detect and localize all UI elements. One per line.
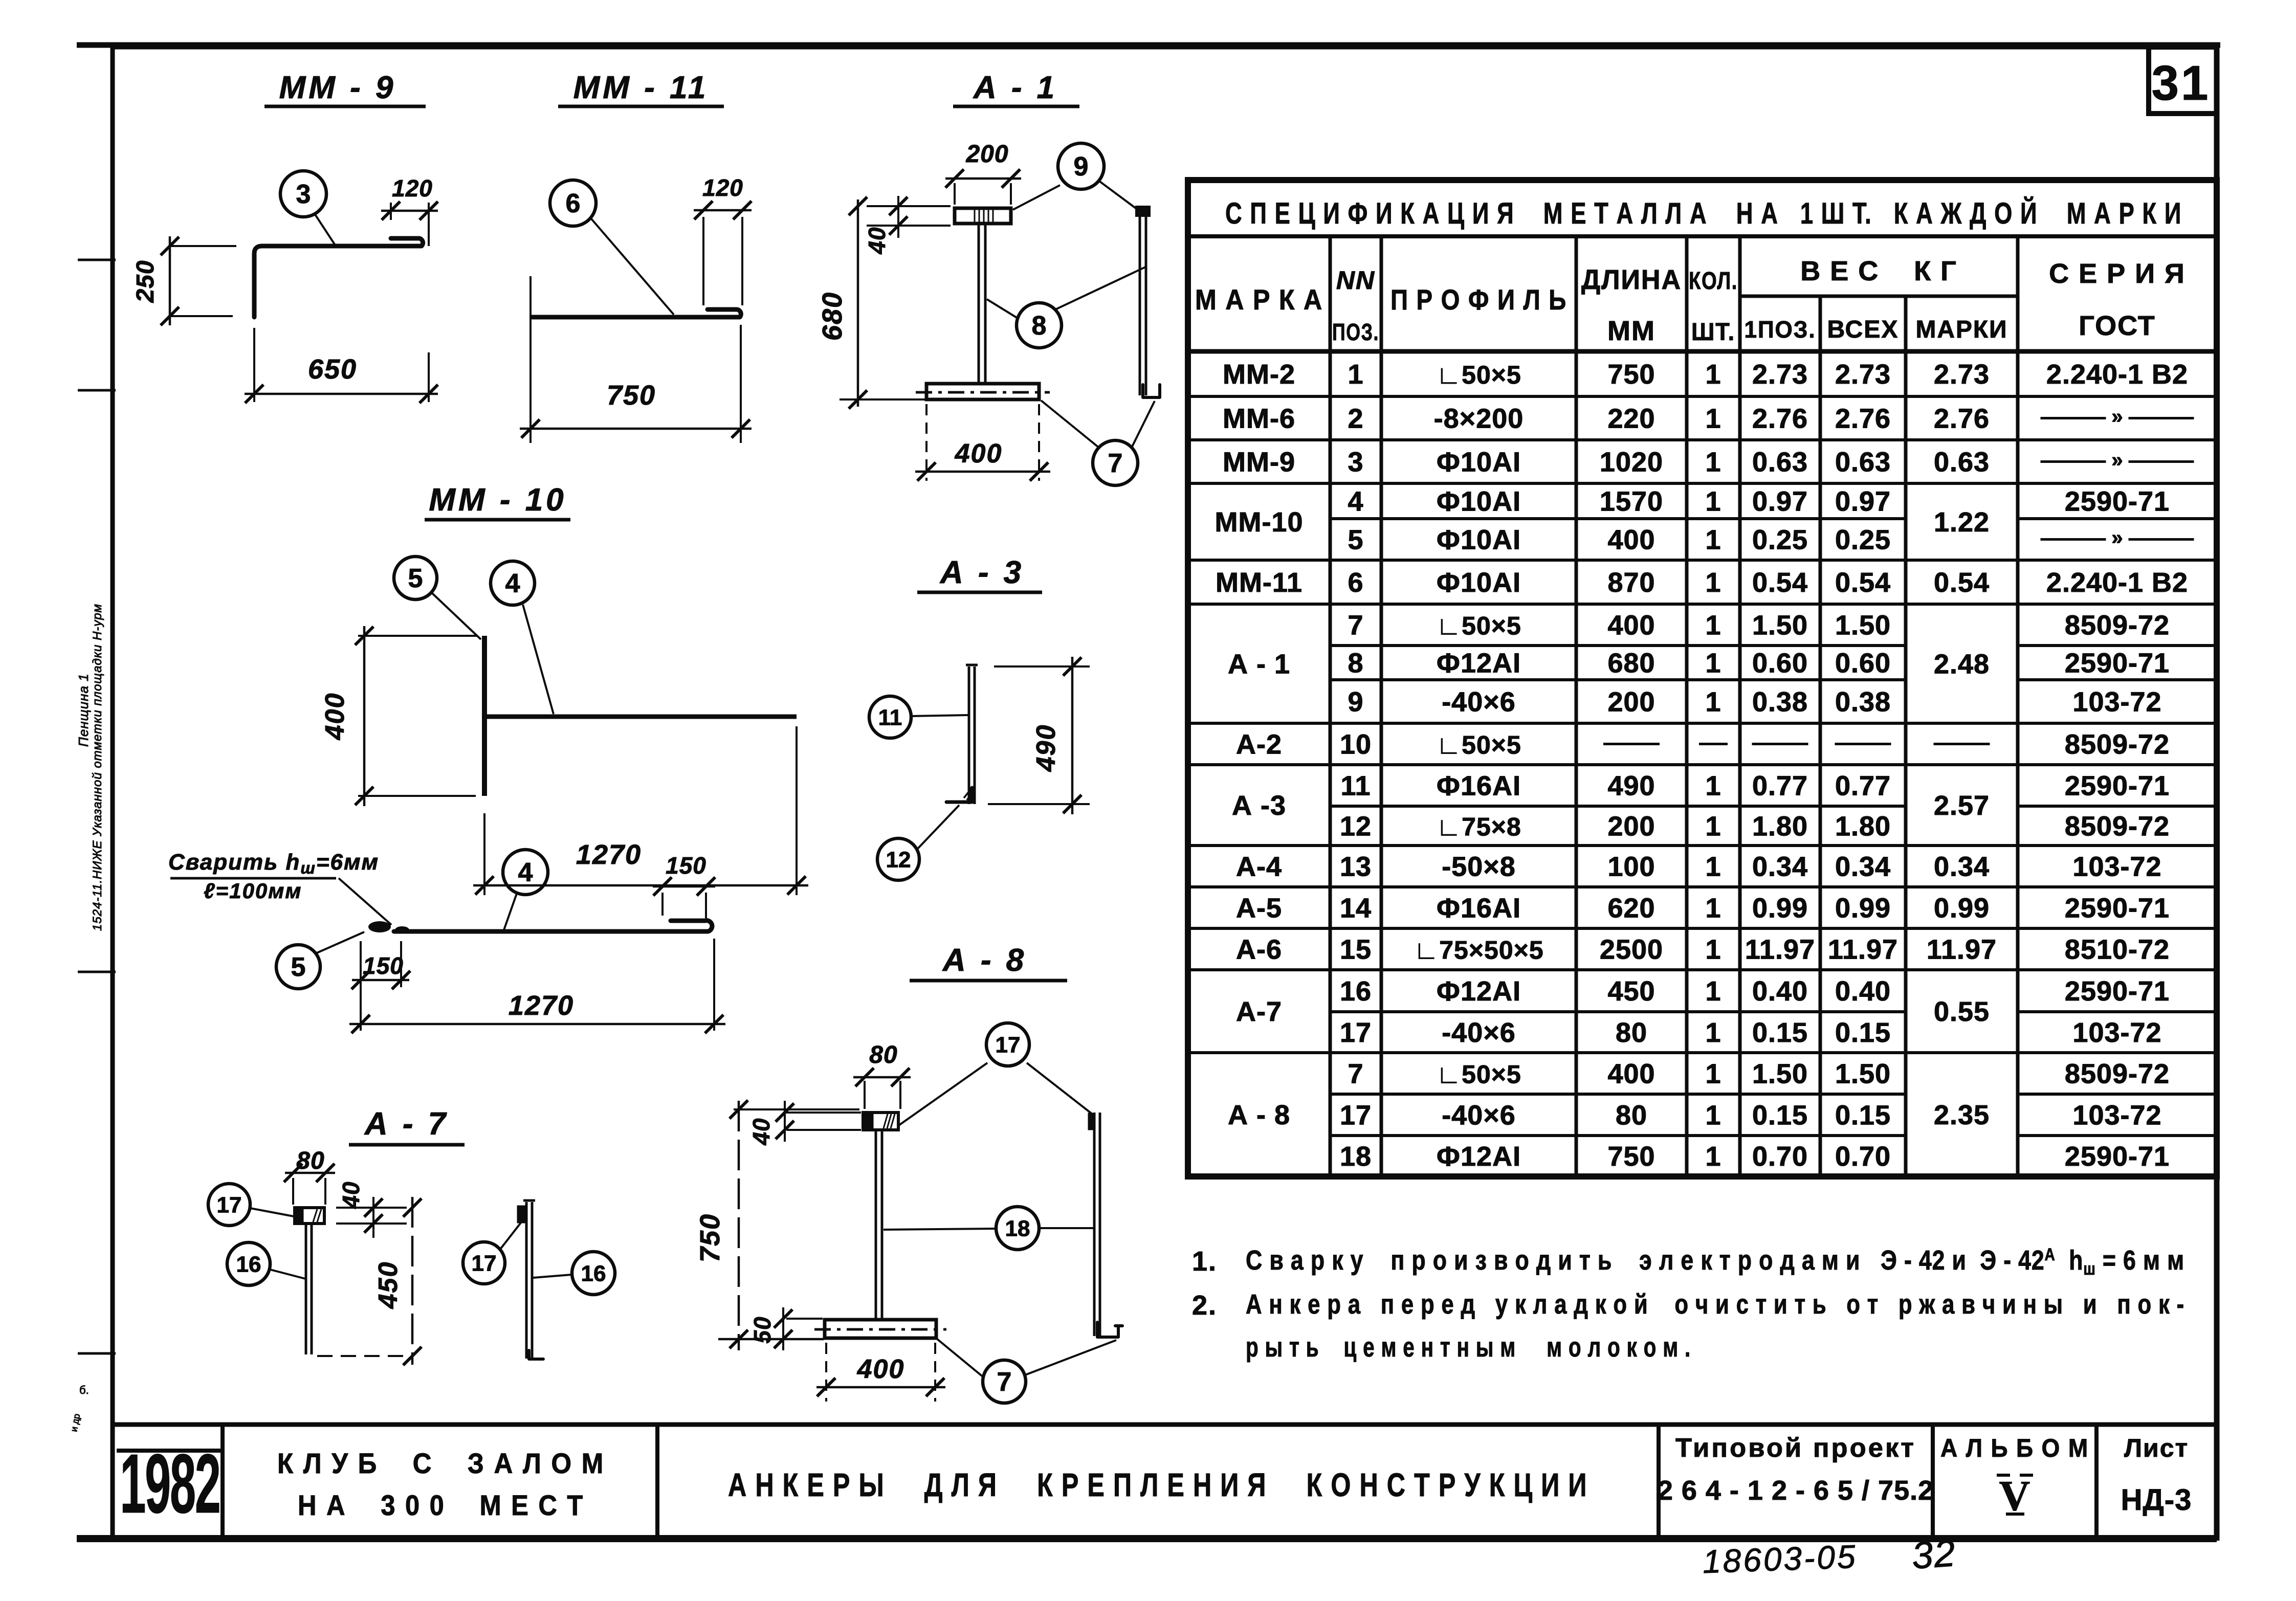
svg-text:120: 120 [702,174,743,201]
svg-text:250: 250 [132,260,159,303]
svg-text:А-2: А-2 [1236,729,1282,760]
svg-text:ШТ.: ШТ. [1691,319,1735,346]
svg-text:0.60: 0.60 [1835,648,1891,679]
svg-text:ММ-2: ММ-2 [1223,359,1295,390]
svg-text:80: 80 [869,1041,897,1069]
leader to pos.16 (A-7 left) [270,1270,305,1279]
title block divider x=1285 [655,1425,659,1541]
svg-text:2.73: 2.73 [1752,359,1808,390]
svg-text:А-6: А-6 [1236,935,1282,965]
leader to pos.16 (A-7 right) [533,1275,571,1278]
dim 200 (A-1 top plate) [954,183,956,205]
svg-text:12: 12 [1340,811,1372,842]
dim 490 (A-3 height) [994,665,1090,668]
svg-text:17: 17 [472,1251,497,1276]
svg-text:0.38: 0.38 [1835,687,1891,718]
svg-text:8509-72: 8509-72 [2065,811,2170,842]
svg-text:1570: 1570 [1600,486,1663,517]
svg-text:150: 150 [666,852,707,879]
A-8 top plate pos.17 [863,1113,898,1130]
svg-text:750: 750 [1607,1141,1655,1172]
svg-text:1: 1 [1348,359,1363,390]
svg-text:2.76: 2.76 [1934,404,1990,434]
svg-text:2.76: 2.76 [1835,404,1891,434]
svg-text:1: 1 [1705,648,1721,679]
svg-text:»: » [2111,449,2123,472]
svg-text:А - 8: А - 8 [1228,1100,1290,1130]
callout circle 6 [550,180,596,226]
svg-text:8509-72: 8509-72 [2065,610,2170,641]
svg-text:2.73: 2.73 [1934,359,1990,390]
svg-text:А - 8: А - 8 [942,943,1027,978]
svg-text:100: 100 [1607,852,1655,882]
svg-text:450: 450 [373,1261,403,1309]
svg-text:А Л Ь Б О М: А Л Ь Б О М [1940,1434,2089,1462]
svg-text:1: 1 [1705,404,1721,434]
A-3 vertical bar pos.11 [968,666,970,804]
svg-text:А-7: А-7 [1236,996,1282,1027]
svg-text:1: 1 [1705,359,1721,390]
callout circle 11 [869,696,911,738]
svg-text:2590-71: 2590-71 [2065,893,2170,924]
svg-text:1: 1 [1705,1100,1721,1131]
leader to pos.4 [523,605,554,714]
callout circle 7 (A-8) [983,1360,1026,1403]
svg-text:16: 16 [236,1252,261,1277]
svg-text:А-4: А-4 [1236,852,1282,882]
svg-text:Ф12АI: Ф12АI [1437,976,1521,1007]
svg-text:-50×8: -50×8 [1442,852,1516,882]
dim 450 (A-7 height) [411,1197,414,1365]
svg-text:1.22: 1.22 [1934,507,1990,538]
svg-text:4: 4 [505,569,520,598]
svg-text:7: 7 [1348,1059,1363,1089]
svg-text:А Н К Е Р Ы Д Л Я К Р: А Н К Е Р Ы Д Л Я К Р Е П Л Е Н И Я К О … [728,1466,1587,1503]
svg-text:∟75×8: ∟75×8 [1436,813,1521,841]
A-7 web pos.16 [305,1224,307,1354]
dim 40 (A-1 plate thickness) [867,205,951,207]
svg-text:200: 200 [965,141,1008,168]
svg-text:0.40: 0.40 [1752,976,1808,1007]
svg-text:0.34: 0.34 [1752,852,1808,882]
svg-text:0.60: 0.60 [1752,648,1808,679]
svg-text:0.15: 0.15 [1752,1100,1808,1131]
callout circle 18 [996,1207,1039,1250]
svg-text:КОЛ.: КОЛ. [1689,268,1738,295]
svg-text:2.73: 2.73 [1835,359,1891,390]
callout circle 4 (weld variant) [503,850,548,895]
svg-text:-8×200: -8×200 [1434,404,1524,434]
svg-text:NN: NN [1336,266,1375,295]
svg-text:1.80: 1.80 [1835,811,1891,842]
svg-text:0.70: 0.70 [1752,1141,1808,1172]
svg-text:ВСЕХ: ВСЕХ [1827,316,1899,343]
svg-text:40: 40 [748,1118,775,1145]
svg-text:1270: 1270 [509,990,574,1021]
dim 40 (A-8 plate thickness) [783,1111,861,1114]
svg-text:р ы т ь ц е м е н т н ы м: р ы т ь ц е м е н т н ы м м о л о к о м … [1246,1332,1691,1363]
table row lines [1188,395,1330,398]
frame fold tick marks on left border [78,259,116,261]
svg-text:ℓ=100мм: ℓ=100мм [204,879,302,903]
svg-text:-40×6: -40×6 [1442,1017,1516,1048]
svg-text:1: 1 [1705,525,1721,555]
svg-text:Сварить hш=6мм: Сварить hш=6мм [168,850,379,877]
svg-text:8509-72: 8509-72 [2065,729,2170,760]
svg-text:ГОСТ: ГОСТ [2079,310,2156,341]
title block frame [77,1535,2217,1542]
A-7 top plate pos.17 [295,1208,324,1224]
callout circle 17 [986,1023,1029,1066]
dim 750 (A-8 height) [734,1108,859,1110]
svg-text:120: 120 [392,175,433,202]
dim 680 (A-1 height) [857,199,859,407]
year stamp 1982 [117,1449,223,1453]
svg-text:1020: 1020 [1600,447,1663,478]
svg-text:ММ-10: ММ-10 [1215,507,1303,538]
leader to pos.6 [591,219,674,315]
svg-text:А - 1: А - 1 [1228,649,1290,680]
title block divider x=3778 [1931,1425,1935,1541]
svg-text:ММ-11: ММ-11 [1216,567,1302,598]
svg-text:∟50×5: ∟50×5 [1436,1060,1521,1089]
svg-text:40: 40 [338,1181,364,1209]
callout circle 9 [1058,143,1104,189]
leaders to pos.18 [884,1229,996,1230]
leader to pos.12 [917,805,959,849]
svg-text:11: 11 [878,705,902,730]
svg-text:8: 8 [1348,648,1363,679]
svg-text:400: 400 [1607,610,1655,641]
svg-text:9: 9 [1074,152,1089,182]
svg-text:680: 680 [1607,648,1655,679]
callout circle 7 [1093,440,1138,485]
svg-text:∟50×5: ∟50×5 [1436,361,1521,389]
svg-text:0.25: 0.25 [1835,525,1891,555]
svg-text:18: 18 [1005,1216,1030,1241]
svg-text:МАРКИ: МАРКИ [1916,316,2008,343]
svg-text:750: 750 [607,380,656,411]
svg-text:103-72: 103-72 [2072,1100,2161,1131]
svg-text:5: 5 [408,564,423,593]
svg-text:1270: 1270 [576,839,642,870]
svg-text:М А Р К А: М А Р К А [1195,283,1323,316]
svg-text:НД-3: НД-3 [2121,1483,2192,1517]
svg-text:200: 200 [1607,811,1655,842]
svg-text:1: 1 [1705,567,1721,598]
A-8 side bar top cap [1089,1114,1095,1129]
svg-text:А-5: А-5 [1236,893,1282,924]
svg-text:∟50×5: ∟50×5 [1436,612,1521,640]
A-1 bottom plate pos.7 [926,384,1039,399]
svg-text:150: 150 [363,952,404,979]
svg-text:1: 1 [1705,447,1721,478]
svg-text:0.55: 0.55 [1934,996,1990,1027]
A-7 side bar top hatch pos.17 [518,1206,526,1222]
MM-10w bar pos.4 [394,921,712,931]
A-1 side bar top cap [1136,207,1150,216]
svg-text:750: 750 [695,1213,725,1262]
svg-text:1.: 1. [1192,1246,1217,1277]
dim 400 (MM-10 cross bar) [358,635,477,637]
A-7 side bar bottom foot [529,1350,543,1359]
sheet number box 31 [2149,47,2217,114]
A-8 web pos.18 [875,1130,877,1319]
frame left border [111,45,115,1541]
svg-text:650: 650 [308,354,357,385]
svg-text:750: 750 [1607,359,1655,390]
detail MM-11 straight bar with hook pos.6 [532,309,741,317]
svg-text:7: 7 [997,1367,1012,1397]
leaders to pos.7 [1041,401,1099,448]
svg-text:1ПОЗ.: 1ПОЗ. [1745,316,1816,343]
svg-text:Ф16АI: Ф16АI [1437,893,1521,924]
dim 650 (MM-9 length) [253,328,255,402]
MM-10 cross bar pos.5 [482,636,487,796]
svg-text:0.77: 0.77 [1752,771,1808,802]
dim 40 (A-7 plate thickness) [336,1207,407,1209]
leader to pos.17 (A-7 right) [500,1221,522,1249]
svg-text:»: » [2111,406,2123,428]
svg-text:1: 1 [1705,893,1721,924]
svg-text:А н к е р а п е р е д у к: А н к е р а п е р е д у к л а д к о й о … [1246,1289,2184,1320]
callout circle 16 (A-7 left) [227,1242,270,1285]
table header grid [1188,234,2217,238]
svg-text:103-72: 103-72 [2072,1017,2161,1048]
svg-text:50: 50 [749,1316,776,1343]
svg-text:Н А 3 0 0 М Е С Т: Н А 3 0 0 М Е С Т [298,1489,584,1521]
title block divider x=3242 [1657,1425,1661,1541]
svg-text:1: 1 [1705,610,1721,641]
svg-text:1.50: 1.50 [1752,1059,1808,1089]
svg-text:450: 450 [1607,976,1655,1007]
svg-text:1: 1 [1705,811,1721,842]
svg-text:0.99: 0.99 [1934,893,1990,924]
svg-text:0.34: 0.34 [1835,852,1891,882]
svg-text:П Р О Ф И Л Ь: П Р О Ф И Л Ь [1390,283,1567,316]
svg-text:200: 200 [1607,687,1655,718]
dim 120 (MM-9 hook) [390,203,392,220]
svg-text:490: 490 [1607,771,1655,802]
dim 150 (weld zone, left) [360,941,362,1031]
frame top border [77,42,2220,48]
svg-text:2590-71: 2590-71 [2065,648,2170,679]
svg-text:С П Е Ц И Ф И К А Ц И Я М Е: С П Е Ц И Ф И К А Ц И Я М Е Т А Л Л А Н … [1225,197,2182,230]
svg-text:2590-71: 2590-71 [2065,1141,2170,1172]
callout circle 8 [1017,303,1062,348]
svg-text:Пенщина 1: Пенщина 1 [76,673,91,747]
svg-text:220: 220 [1607,404,1655,434]
svg-text:32: 32 [1910,1531,1957,1577]
leader to weld [316,932,364,953]
svg-text:1: 1 [1705,852,1721,882]
leaders to pos.17 [899,1063,987,1125]
svg-text:2.: 2. [1192,1290,1217,1321]
svg-text:ММ-9: ММ-9 [1223,447,1295,478]
leader to pos.17 (A-7 left) [250,1208,294,1216]
svg-text:0.54: 0.54 [1835,567,1891,598]
A-1 side bar (view) [1139,211,1141,395]
svg-text:9: 9 [1348,687,1363,718]
svg-text:ММ - 10: ММ - 10 [429,482,566,518]
svg-text:11.97: 11.97 [1927,935,1997,965]
callout circle 5 [394,557,437,599]
svg-text:103-72: 103-72 [2072,687,2161,718]
leader to pos.11 [911,715,968,716]
svg-text:6: 6 [566,189,581,218]
svg-text:Лист: Лист [2124,1434,2189,1462]
title block divider x=4098 [2094,1425,2099,1541]
svg-text:»: » [2111,527,2123,549]
leader from weld note [339,878,391,925]
svg-text:40: 40 [864,227,890,254]
svg-text:С в а р к у п р о и з в о д: С в а р к у п р о и з в о д и т ь э л е … [1246,1245,2184,1279]
svg-text:400: 400 [857,1354,905,1384]
svg-text:4: 4 [1348,486,1363,517]
svg-text:В Е С К Г: В Е С К Г [1800,256,1957,286]
svg-text:А - 7: А - 7 [364,1106,449,1142]
svg-text:2.35: 2.35 [1934,1100,1990,1130]
dim 400 (A-8 bottom plate) [825,1343,827,1402]
dim 80 (A-8 plate) [864,1081,866,1109]
svg-text:0.70: 0.70 [1835,1141,1891,1172]
leader to pos.5 [432,593,481,639]
svg-text:80: 80 [1616,1017,1647,1048]
svg-text:∟50×5: ∟50×5 [1436,731,1521,760]
svg-text:2: 2 [1348,404,1363,434]
svg-text:А - 3: А - 3 [939,555,1024,590]
svg-text:0.63: 0.63 [1752,447,1808,478]
svg-text:ММ: ММ [1607,316,1655,346]
callout circle 3 [280,171,326,217]
svg-text:18: 18 [1340,1141,1372,1172]
svg-text:1.50: 1.50 [1835,1059,1891,1089]
svg-text:5: 5 [1348,525,1363,555]
svg-text:8509-72: 8509-72 [2065,1059,2170,1089]
svg-text:80: 80 [1616,1100,1647,1131]
callout circle 4 [491,561,535,605]
A-8 bottom plate pos.7 [825,1320,936,1338]
svg-text:2500: 2500 [1600,935,1663,965]
dim 400 (A-1 bottom plate) [925,404,928,481]
svg-text:1.50: 1.50 [1835,610,1891,641]
svg-text:18603-05: 18603-05 [1702,1538,1858,1581]
svg-text:490: 490 [1031,724,1061,772]
svg-text:0.99: 0.99 [1752,893,1808,924]
svg-text:1524-11.НИЖЕ Указанной отметки: 1524-11.НИЖЕ Указанной отметки площадки … [91,604,104,931]
dim 750 (MM-11 length) [529,276,532,443]
svg-text:Ф10АI: Ф10АI [1437,567,1521,598]
svg-text:2.57: 2.57 [1934,790,1990,821]
svg-text:870: 870 [1607,567,1655,598]
svg-text:С Е Р И Я: С Е Р И Я [2049,258,2185,289]
svg-text:б.: б. [79,1384,89,1396]
svg-text:103-72: 103-72 [2072,852,2161,882]
svg-text:31: 31 [2152,56,2211,110]
dim 250 (MM-9 leg) [170,245,236,247]
svg-text:4: 4 [518,858,533,887]
svg-text:1: 1 [1705,976,1721,1007]
svg-text:0.63: 0.63 [1934,447,1990,478]
svg-text:-40×6: -40×6 [1442,1100,1516,1131]
svg-text:5: 5 [291,952,306,982]
A-1 top plate pos.9 [955,208,1011,224]
svg-text:Ф12АI: Ф12АI [1437,648,1521,679]
svg-text:15: 15 [1340,935,1372,965]
svg-text:10: 10 [1340,729,1372,760]
svg-text:1.80: 1.80 [1752,811,1808,842]
svg-text:17: 17 [1340,1017,1372,1048]
leaders to pos.9 [1013,185,1060,210]
svg-text:400: 400 [1607,1059,1655,1089]
leader to pos.4 [504,894,517,930]
leaders to pos.8 [987,299,1018,318]
svg-text:11.97: 11.97 [1828,935,1898,965]
dim 120 (MM-11 hook) [702,217,704,305]
svg-text:0.97: 0.97 [1835,486,1891,517]
svg-text:0.54: 0.54 [1752,567,1808,598]
A-7 side bar (view) [525,1202,528,1359]
svg-text:17: 17 [996,1032,1021,1057]
svg-text:2590-71: 2590-71 [2065,771,2170,802]
svg-text:Ф10АI: Ф10АI [1437,447,1521,478]
callout circle 17 (A-7 right) [463,1242,505,1284]
svg-text:400: 400 [320,693,350,741]
svg-text:ММ-6: ММ-6 [1223,404,1295,434]
table: СПЕЦИФИКАЦИЯ МЕТАЛЛА title row [1188,180,2217,1176]
svg-text:ПОЗ.: ПОЗ. [1332,319,1379,345]
svg-text:1: 1 [1705,771,1721,802]
svg-text:0.15: 0.15 [1752,1017,1808,1048]
svg-text:2 6 4 - 1 2 - 6 5 / 75.2: 2 6 4 - 1 2 - 6 5 / 75.2 [1658,1475,1934,1506]
svg-text:400: 400 [1607,525,1655,555]
svg-text:6: 6 [1348,567,1363,598]
svg-text:11.97: 11.97 [1745,935,1815,965]
svg-text:0.63: 0.63 [1835,447,1891,478]
detail MM-9 bent bar pos.3 [254,238,423,317]
svg-text:2590-71: 2590-71 [2065,486,2170,517]
dim 1270 (weld variant length) [713,939,715,1031]
svg-text:0.97: 0.97 [1752,486,1808,517]
svg-text:1.50: 1.50 [1752,610,1808,641]
svg-text:3: 3 [296,180,311,209]
svg-text:1: 1 [1705,1059,1721,1089]
dim 50 (A-8 bottom plate offset) [786,1318,823,1320]
weld seam blob pos.5 attach [368,921,391,932]
svg-text:ММ - 9: ММ - 9 [279,70,396,105]
callout circle 5 (weld variant) [276,945,320,989]
svg-text:ММ - 11: ММ - 11 [573,70,709,105]
svg-text:1982: 1982 [120,1437,219,1531]
svg-text:620: 620 [1607,893,1655,924]
A-1 side bar bottom foot [1143,385,1160,397]
svg-text:0.15: 0.15 [1835,1017,1891,1048]
A-1 web pos.8 [978,224,980,385]
callout circle 16 (A-7 right) [572,1252,615,1295]
svg-text:Типовой проект: Типовой проект [1675,1433,1916,1463]
svg-text:Ф10АI: Ф10АI [1437,525,1521,555]
svg-text:16: 16 [1340,976,1372,1007]
svg-text:2.48: 2.48 [1934,649,1990,680]
svg-text:0.40: 0.40 [1835,976,1891,1007]
svg-text:16: 16 [581,1261,606,1286]
svg-text:7: 7 [1108,449,1123,478]
svg-text:8510-72: 8510-72 [2065,935,2170,965]
svg-text:0.38: 0.38 [1752,687,1808,718]
svg-text:80: 80 [296,1147,324,1174]
svg-text:1: 1 [1705,935,1721,965]
svg-text:А - 1: А - 1 [973,70,1057,105]
